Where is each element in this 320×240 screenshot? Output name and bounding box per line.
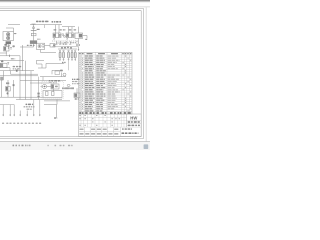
accumulator A5: [74, 50, 76, 61]
pilot valve C3: [55, 71, 60, 75]
status bar corner icon: [144, 144, 149, 149]
power unit label: [49, 80, 51, 81]
left manifold lines: [0, 52, 7, 54]
revision rows grid: [79, 114, 142, 127]
solenoid valve labels: [54, 29, 57, 30]
reducing valve D1: [4, 44, 16, 60]
shutoff valve D2: [0, 60, 9, 67]
staircase wires: [37, 59, 45, 61]
inter-valve check symbols: [62, 34, 64, 36]
lower pipe runs: [44, 100, 70, 102]
return filter label: [72, 79, 73, 80]
filter box: [74, 88, 80, 100]
branch down: [3, 71, 5, 80]
scale cell text: [122, 128, 124, 129]
pump block: [51, 84, 59, 89]
filter F1: [37, 43, 57, 52]
page right edge: [145, 7, 147, 141]
drawing number cell: [127, 119, 142, 121]
left branch verticals: [19, 56, 21, 100]
lower title grid: [79, 127, 121, 136]
toolbar divider: [0, 6, 150, 8]
title block outline: [79, 114, 142, 137]
parts list table: [79, 52, 132, 114]
pipe label valve model: [52, 21, 54, 23]
relief valve block B2: [75, 27, 87, 51]
window title bar: [0, 0, 150, 1]
oil tank: [43, 89, 62, 98]
status bar top border: [0, 141, 150, 143]
valve model label: [13, 66, 15, 67]
riser from valve line: [22, 45, 24, 71]
table header text: [79, 53, 131, 54]
accumulator bank header: [56, 42, 64, 44]
port labels row: [2, 123, 41, 124]
twin gauge symbols: [37, 93, 39, 95]
sequence valve stack E1: [2, 80, 15, 97]
sheet name cell: [121, 132, 124, 134]
accumulator manifold dots: [61, 47, 62, 48]
power unit dashed enclosure: [42, 82, 64, 99]
CY-XB note line2: [24, 106, 26, 107]
accumulator bank labels: [64, 42, 66, 43]
solenoid valve Y2: [66, 33, 74, 40]
long drain line: [0, 75, 38, 77]
manifold dashed enclosure: [52, 40, 78, 42]
pipe label pressure: [36, 21, 39, 23]
accumulator bank drop: [68, 61, 70, 70]
check valve center: [63, 73, 66, 76]
table footer totals row: [79, 112, 131, 114]
status bar page controls: [13, 145, 73, 147]
return line L2: [0, 70, 34, 72]
accumulator A2: [63, 50, 65, 61]
table row text smudges: [79, 56, 131, 112]
return filter comb: [62, 87, 74, 89]
corner tank symbol: [0, 77, 3, 81]
gauge line V1: [20, 24, 40, 47]
solenoid valve Y1: [53, 33, 61, 40]
accumulator A1: [59, 50, 61, 61]
lower title text: [79, 129, 118, 135]
valve drops: [55, 25, 57, 33]
valve drains: [55, 41, 71, 45]
return line L1: [0, 67, 10, 69]
CY-XB note line1: [26, 104, 28, 106]
svg-text:HW: HW: [130, 115, 137, 120]
pipe stub: [44, 25, 46, 28]
air breather: [67, 84, 70, 86]
filter F1 label: [27, 45, 29, 46]
revision rows text dots: [79, 115, 120, 126]
sheet frame outer border: [0, 9, 144, 139]
main pressure pipe: [8, 24, 20, 26]
center wires: [46, 63, 64, 65]
motor M: [41, 84, 52, 88]
pump group P1: [3, 28, 16, 49]
accumulator A3: [68, 50, 70, 61]
port drop lines with arrows: [0, 100, 41, 117]
return header: [0, 96, 43, 98]
company logo cell: [126, 114, 128, 127]
accumulator A4: [71, 50, 73, 61]
sheet frame inner border: [0, 11, 141, 137]
CY-XB note line3: [27, 109, 30, 110]
manifold bottom line: [52, 46, 78, 48]
